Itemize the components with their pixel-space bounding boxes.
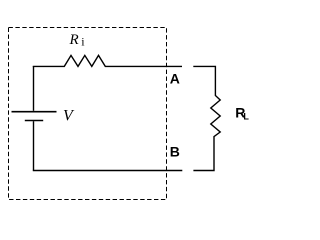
svg-text:V: V xyxy=(63,108,75,125)
svg-text:B: B xyxy=(170,143,180,159)
svg-text:i: i xyxy=(81,35,85,49)
svg-text:L: L xyxy=(243,111,249,121)
svg-text:A: A xyxy=(170,71,180,87)
svg-text:R: R xyxy=(69,32,79,48)
